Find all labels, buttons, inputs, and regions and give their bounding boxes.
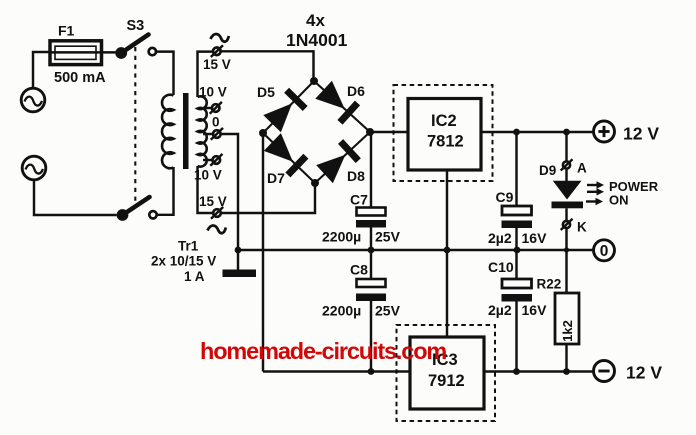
switch S3 pole 2 — [117, 197, 157, 221]
svg-text:25V: 25V — [375, 229, 401, 245]
svg-text:D5: D5 — [257, 84, 275, 100]
capacitor C10 — [502, 250, 533, 372]
tap 0 — [203, 128, 223, 140]
junction C9 at positive rail — [513, 129, 520, 136]
svg-text:F1: F1 — [58, 23, 75, 39]
ground rail — [238, 249, 594, 251]
wire 15V top to bridge — [221, 51, 314, 81]
transformer core — [183, 93, 189, 169]
diode D6 — [315, 81, 357, 123]
IC2 IC3 common ground pin wire — [446, 170, 448, 337]
svg-text:2200µ: 2200µ — [322, 303, 361, 319]
svg-text:0: 0 — [212, 115, 220, 130]
svg-text:C7: C7 — [350, 192, 368, 208]
svg-text:500 mA: 500 mA — [54, 70, 106, 86]
junction node bridge bottom — [311, 179, 319, 187]
wire 15V bottom to bridge bottom — [221, 183, 315, 213]
wire secondary top to 15V terminal — [198, 52, 214, 97]
LED D9 — [552, 169, 584, 221]
svg-text:1 A: 1 A — [184, 269, 205, 284]
capacitor C9 — [502, 132, 533, 250]
svg-text:25V: 25V — [375, 303, 401, 319]
wire 0 tap to ground rail — [221, 134, 238, 250]
svg-text:IC2: IC2 — [431, 112, 457, 130]
diode D7 — [264, 133, 306, 175]
svg-text:7812: 7812 — [427, 133, 464, 151]
svg-text:2µ2: 2µ2 — [488, 230, 512, 246]
svg-text:R22: R22 — [537, 277, 562, 292]
terminal K — [561, 219, 573, 230]
junction node bridge top — [310, 77, 318, 85]
terminal A — [561, 159, 573, 170]
svg-text:Tr1: Tr1 — [178, 239, 199, 254]
wire AC2 to switch 2 — [34, 180, 117, 215]
wire bridge left corner down to negative rail — [262, 133, 264, 372]
junction C10 at ground rail — [514, 247, 521, 254]
diode D5 — [263, 90, 305, 132]
svg-text:C9: C9 — [496, 189, 514, 205]
svg-text:D8: D8 — [347, 168, 365, 184]
wire R22 to negative rail — [565, 344, 567, 372]
svg-text:homemade-circuits.com: homemade-circuits.com — [200, 338, 446, 364]
bridge edges — [263, 81, 370, 183]
svg-text:12 V: 12 V — [626, 363, 662, 383]
svg-text:2200µ: 2200µ — [322, 229, 361, 245]
wire through fuse to switch — [50, 51, 117, 53]
svg-text:15 V: 15 V — [203, 57, 231, 72]
negative rail — [263, 370, 594, 372]
~ symbol bottom — [208, 226, 226, 234]
transformer Tr1 primary winding — [162, 95, 173, 169]
AC source terminal 1 — [21, 88, 45, 112]
svg-text:1k2: 1k2 — [560, 320, 575, 342]
svg-text:ON: ON — [609, 193, 629, 208]
ground symbol — [223, 250, 257, 277]
IC2 box — [408, 99, 481, 171]
wire switch2 to transformer primary bottom — [157, 167, 174, 215]
svg-text:7912: 7912 — [428, 372, 465, 390]
junction IC ground pins at ground rail — [444, 247, 451, 254]
svg-text:10 V: 10 V — [199, 85, 227, 100]
svg-text:1N4001: 1N4001 — [286, 30, 348, 50]
switch gang dashed link — [134, 47, 136, 206]
junction 0 tap at ground rail — [235, 247, 242, 254]
junction C8 at negative rail — [368, 368, 375, 375]
wire AC1 to fuse — [33, 52, 50, 88]
svg-text:A: A — [577, 161, 587, 176]
svg-text:2µ2: 2µ2 — [488, 302, 512, 318]
terminal -12V — [594, 361, 615, 382]
svg-text:2x 10/15 V: 2x 10/15 V — [151, 254, 216, 269]
transformer Tr1 secondary winding — [198, 96, 207, 166]
tap 10V lower — [203, 154, 223, 166]
LED light arrow 3 — [586, 198, 603, 205]
resistor R22 — [555, 293, 579, 344]
capacitor C7 — [356, 132, 386, 250]
svg-text:16V: 16V — [522, 230, 548, 246]
~ symbol top — [211, 34, 229, 42]
svg-text:4x: 4x — [306, 11, 325, 30]
LED D9 branch — [565, 132, 567, 161]
tap 10V upper — [203, 102, 222, 114]
AC source terminal 2 — [22, 156, 46, 180]
fuse F1 — [50, 41, 102, 65]
junction R22 at negative rail — [563, 368, 570, 375]
wire switch1 to transformer — [156, 52, 174, 95]
capacitor C8 — [356, 250, 386, 372]
terminal +12V — [594, 121, 615, 142]
junction K wire at ground rail — [564, 247, 569, 252]
svg-text:D7: D7 — [267, 170, 285, 186]
junction C7 C8 at ground rail — [368, 247, 375, 254]
svg-text:K: K — [577, 220, 587, 235]
terminal 0 — [594, 240, 615, 261]
LED light arrow 2 — [587, 188, 604, 195]
junction D9 at positive rail — [563, 129, 570, 136]
svg-text:D9: D9 — [539, 163, 556, 178]
IC3 box — [410, 337, 484, 409]
svg-text:S3: S3 — [127, 18, 145, 34]
IC2 dashed box — [394, 85, 493, 181]
svg-text:0: 0 — [600, 243, 609, 260]
IC3 dashed box — [397, 325, 496, 421]
switch S3 pole 1 — [115, 35, 156, 59]
svg-text:D6: D6 — [347, 83, 365, 99]
svg-text:16V: 16V — [522, 302, 548, 318]
LED light arrow 1 — [587, 181, 604, 188]
diode D8 — [316, 142, 358, 184]
positive rail — [370, 131, 594, 133]
wire K to R22 — [565, 228, 567, 293]
terminal 15V bottom — [211, 207, 223, 219]
svg-text:C8: C8 — [350, 262, 368, 278]
svg-text:C10: C10 — [488, 259, 514, 275]
terminal 15V top — [211, 45, 223, 57]
junction node bridge left — [259, 129, 267, 137]
junction node bridge right — [366, 128, 374, 136]
junction C10 at negative rail — [513, 368, 520, 375]
svg-text:12 V: 12 V — [623, 124, 659, 144]
wire secondary bottom to 15V bottom terminal — [198, 166, 214, 213]
